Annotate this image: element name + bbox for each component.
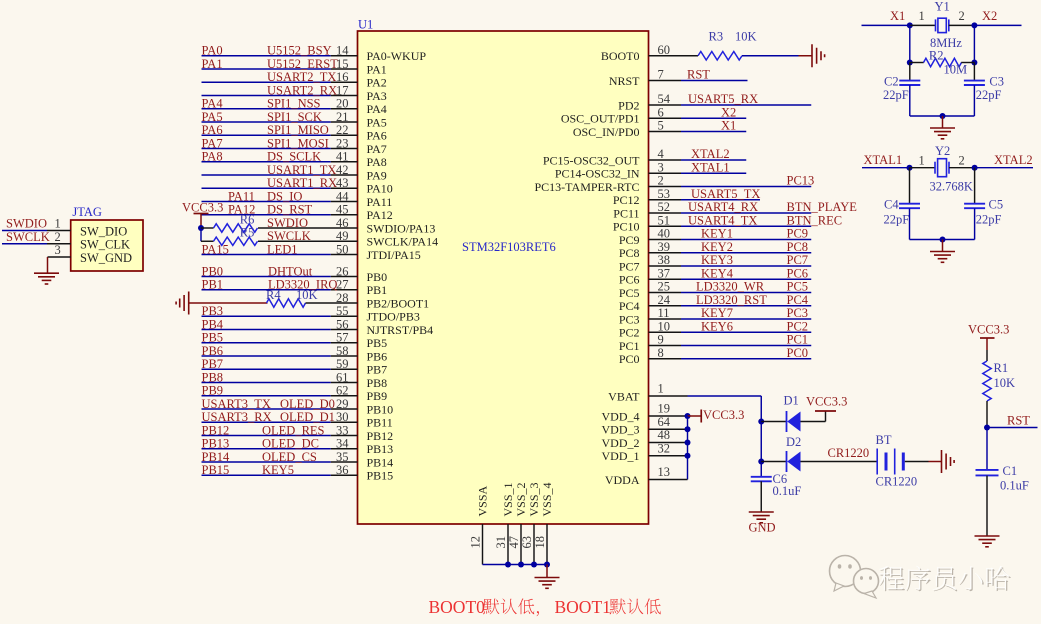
svg-text:27: 27 [336, 278, 349, 292]
svg-text:PC2: PC2 [787, 319, 809, 333]
ground GND [749, 511, 774, 513]
pin 54 wire [649, 104, 682, 106]
svg-text:KEY4: KEY4 [701, 266, 734, 280]
svg-text:PA8: PA8 [202, 150, 223, 164]
svg-text:51: 51 [658, 213, 671, 227]
ground (battery) [941, 450, 943, 473]
right column down [973, 25, 975, 62]
svg-text:PB0: PB0 [367, 270, 388, 284]
svg-text:PB6: PB6 [202, 344, 224, 358]
junction [544, 562, 550, 568]
pin 12 VSSA [482, 524, 484, 565]
svg-text:X1: X1 [890, 9, 905, 23]
pin 26 PB0 wire [202, 276, 331, 278]
svg-text:0.1uF: 0.1uF [1000, 479, 1029, 493]
svg-text:13: 13 [658, 465, 671, 479]
svg-text:USART2_RX: USART2_RX [267, 83, 337, 97]
svg-text:PB9: PB9 [367, 389, 388, 403]
svg-text:14: 14 [336, 44, 349, 58]
svg-text:6: 6 [658, 105, 664, 119]
svg-text:4: 4 [658, 147, 665, 161]
svg-text:U5152_BSY: U5152_BSY [267, 44, 332, 58]
svg-text:VDDA: VDDA [605, 473, 640, 487]
svg-text:57: 57 [336, 331, 349, 345]
svg-text:PB10: PB10 [367, 402, 394, 416]
VBAT vertical rail [760, 396, 762, 476]
svg-text:OLED_D0: OLED_D0 [280, 397, 335, 411]
svg-text:VDD_4: VDD_4 [602, 409, 640, 423]
pin 48 VDD_2 [649, 442, 688, 444]
svg-text:PA15: PA15 [202, 242, 229, 256]
svg-text:Y1: Y1 [935, 0, 950, 14]
svg-text:PA6: PA6 [202, 123, 223, 137]
pin 38 wire [649, 265, 682, 267]
svg-text:PC3: PC3 [787, 306, 809, 320]
svg-text:22pF: 22pF [976, 213, 1002, 227]
svg-text:PC1: PC1 [619, 339, 640, 353]
pin 41 PA8 wire [202, 161, 331, 163]
pin 45 PA12 wire [202, 214, 331, 216]
svg-text:7: 7 [658, 68, 664, 82]
ground (JTAG) [34, 272, 59, 274]
svg-text:31: 31 [494, 536, 508, 549]
svg-text:CR1220: CR1220 [876, 475, 918, 489]
svg-text:PC6: PC6 [619, 273, 640, 287]
svg-text:SWDIO/PA13: SWDIO/PA13 [367, 221, 436, 235]
wire Y1 to X2 [949, 24, 975, 26]
svg-text:1: 1 [55, 217, 61, 231]
pin 10 wire [649, 331, 682, 333]
svg-text:PC8: PC8 [619, 246, 640, 260]
resistor R1 10K [983, 361, 991, 401]
svg-text:VCC3.3: VCC3.3 [182, 201, 223, 215]
svg-text:32.768K: 32.768K [930, 180, 973, 194]
svg-text:PA0-WKUP: PA0-WKUP [367, 49, 427, 63]
svg-text:D1: D1 [784, 394, 799, 408]
svg-text:USART2_TX: USART2_TX [267, 70, 336, 84]
svg-text:JTDO/PB3: JTDO/PB3 [367, 310, 420, 324]
svg-text:RST: RST [1007, 414, 1030, 428]
svg-text:22pF: 22pF [883, 88, 909, 102]
pin 30 PB11 wire [202, 421, 331, 423]
IC U1 STM32F103RET6 [358, 31, 649, 524]
svg-text:10K: 10K [994, 376, 1016, 390]
svg-text:OSC_IN/PD0: OSC_IN/PD0 [573, 125, 640, 139]
pin 34 PB13 wire [202, 448, 331, 450]
svg-text:USART1_TX: USART1_TX [267, 163, 336, 177]
net XTAL2 wire [975, 167, 1033, 169]
power port VCC3.3 (D1) [815, 410, 836, 412]
pin 29 PB10 wire [202, 408, 331, 410]
svg-text:1: 1 [919, 9, 925, 23]
wire to R6 [201, 227, 214, 229]
pin 22 PA6 wire [202, 134, 331, 136]
svg-text:62: 62 [336, 384, 349, 398]
svg-text:R6: R6 [240, 212, 255, 226]
svg-text:OLED_DC: OLED_DC [262, 437, 319, 451]
svg-text:PB5: PB5 [367, 336, 388, 350]
svg-text:PC5: PC5 [787, 280, 809, 294]
svg-text:LD3320_WR: LD3320_WR [696, 280, 765, 294]
svg-text:BTN_REC: BTN_REC [787, 213, 843, 227]
svg-text:LD3320_RST: LD3320_RST [696, 293, 767, 307]
svg-text:PC9: PC9 [787, 227, 809, 241]
svg-text:8: 8 [658, 346, 664, 360]
svg-text:45: 45 [336, 203, 349, 217]
svg-text:PB8: PB8 [202, 370, 224, 384]
svg-text:PA0: PA0 [202, 44, 223, 58]
ground (PB2 pulldown) [188, 292, 190, 315]
svg-text:OLED_D1: OLED_D1 [280, 410, 335, 424]
svg-text:PC12: PC12 [613, 193, 640, 207]
junction [531, 562, 537, 568]
pin 63 VSS_3 [533, 524, 535, 565]
svg-text:VDD_3: VDD_3 [602, 423, 640, 437]
svg-text:24: 24 [658, 293, 671, 307]
svg-text:DS_RST: DS_RST [267, 203, 313, 217]
svg-text:U5152_ERST: U5152_ERST [267, 57, 338, 71]
pin 32 VDD_1 [649, 455, 688, 457]
svg-text:PA7: PA7 [367, 142, 387, 156]
svg-text:PC13-TAMPER-RTC: PC13-TAMPER-RTC [535, 180, 640, 194]
svg-text:PC8: PC8 [787, 240, 809, 254]
svg-text:VDD_1: VDD_1 [602, 449, 640, 463]
svg-text:17: 17 [336, 83, 349, 97]
net SWCLK wire [2, 243, 47, 245]
svg-text:JTAG: JTAG [72, 205, 102, 219]
svg-text:PC9: PC9 [619, 233, 640, 247]
wire C6 to ground [760, 481, 762, 511]
bottom bus Y2 [910, 239, 975, 241]
pin 40 wire [649, 239, 682, 241]
svg-text:KEY6: KEY6 [701, 319, 733, 333]
svg-text:X2: X2 [721, 105, 736, 119]
pin 60 BOOT0 + resistor R3 to ground [649, 55, 699, 57]
node X1 [907, 22, 913, 28]
net XTAL1 wire [862, 167, 910, 169]
svg-text:PC3: PC3 [619, 312, 640, 326]
svg-text:KEY3: KEY3 [701, 253, 733, 267]
node R2 right [971, 60, 977, 66]
svg-text:2: 2 [55, 230, 61, 244]
svg-text:PB2/BOOT1: PB2/BOOT1 [367, 296, 430, 310]
svg-text:10: 10 [658, 319, 671, 333]
svg-text:PB11: PB11 [367, 416, 393, 430]
svg-text:KEY7: KEY7 [701, 306, 733, 320]
svg-text:PC6: PC6 [787, 266, 809, 280]
svg-text:PB8: PB8 [367, 376, 388, 390]
svg-text:VCC3.3: VCC3.3 [968, 323, 1009, 337]
svg-text:33: 33 [336, 423, 349, 437]
svg-text:PB1: PB1 [202, 278, 224, 292]
svg-text:PC13: PC13 [787, 174, 815, 188]
svg-text:38: 38 [658, 253, 671, 267]
svg-text:46: 46 [336, 216, 349, 230]
svg-text:XTAL1: XTAL1 [864, 153, 903, 167]
svg-text:USART4_RX: USART4_RX [688, 200, 758, 214]
svg-text:SPI1_MISO: SPI1_MISO [267, 123, 329, 137]
wire R5 left [201, 240, 214, 242]
svg-text:32: 32 [658, 442, 671, 456]
svg-text:47: 47 [507, 536, 521, 549]
svg-text:54: 54 [658, 92, 671, 106]
svg-text:36: 36 [336, 463, 349, 477]
svg-text:PC7: PC7 [619, 259, 640, 273]
svg-text:41: 41 [336, 150, 349, 164]
svg-text:39: 39 [658, 240, 671, 254]
svg-text:USART3_RX: USART3_RX [202, 410, 272, 424]
svg-text:22: 22 [336, 123, 349, 137]
svg-text:10K: 10K [296, 288, 318, 302]
node X2 [971, 22, 977, 28]
svg-text:PA2: PA2 [367, 76, 387, 90]
svg-text:R2: R2 [929, 49, 944, 63]
svg-text:PB3: PB3 [202, 304, 224, 318]
svg-text:PC4: PC4 [619, 299, 640, 313]
svg-text:19: 19 [658, 402, 671, 416]
svg-text:C5: C5 [989, 198, 1004, 212]
pin 5 wire [649, 131, 682, 133]
pin 3 SW_GND wire [48, 256, 71, 258]
pin 37 wire [649, 278, 682, 280]
svg-text:PA5: PA5 [202, 110, 223, 124]
svg-text:KEY1: KEY1 [701, 227, 733, 241]
svg-text:BT: BT [876, 433, 892, 447]
svg-text:SWCLK: SWCLK [267, 229, 311, 243]
svg-text:2: 2 [959, 154, 965, 168]
svg-text:SPI1_NSS: SPI1_NSS [267, 97, 321, 111]
svg-text:PB12: PB12 [202, 423, 230, 437]
pin 49 SWCLK/PA14 wire [258, 240, 358, 242]
svg-text:R3: R3 [709, 30, 724, 44]
svg-text:XTAL2: XTAL2 [691, 147, 730, 161]
svg-text:PA12: PA12 [367, 208, 393, 222]
pin 33 PB12 wire [202, 435, 331, 437]
ground (Y2) [930, 251, 955, 253]
wire to Y1 [910, 24, 936, 26]
svg-text:35: 35 [336, 450, 349, 464]
ground (R3) [811, 44, 813, 67]
resistor R6 [214, 224, 258, 232]
svg-text:USART5_RX: USART5_RX [688, 92, 758, 106]
svg-text:29: 29 [336, 397, 349, 411]
junction [518, 562, 524, 568]
pin 24 wire [649, 305, 682, 307]
wire battery to ground [905, 461, 929, 463]
svg-text:PC7: PC7 [787, 253, 809, 267]
svg-text:PB0: PB0 [202, 264, 224, 278]
svg-text:VCC3.3: VCC3.3 [806, 395, 847, 409]
net RST wire [987, 427, 1038, 429]
svg-text:10K: 10K [735, 30, 757, 44]
svg-text:5: 5 [658, 119, 664, 133]
svg-text:XTAL2: XTAL2 [994, 153, 1033, 167]
svg-text:PC0: PC0 [619, 352, 640, 366]
svg-text:PA8: PA8 [367, 155, 387, 169]
svg-text:52: 52 [658, 200, 671, 214]
svg-text:SPI1_MOSI: SPI1_MOSI [267, 136, 329, 150]
pin 31 VSS_1 [507, 524, 509, 565]
wire gnd to R4 [189, 302, 268, 304]
svg-text:PB1: PB1 [367, 283, 388, 297]
pin 57 PB5 wire [202, 342, 331, 344]
svg-text:KEY5: KEY5 [262, 463, 294, 477]
svg-text:PA9: PA9 [367, 168, 387, 182]
pin 35 PB14 wire [202, 461, 331, 463]
ground (Y1) [930, 127, 955, 129]
svg-text:21: 21 [336, 110, 349, 124]
svg-text:LED1: LED1 [267, 242, 298, 256]
pin 39 wire [649, 252, 682, 254]
svg-text:CR1220: CR1220 [828, 446, 870, 460]
svg-text:PA11: PA11 [367, 195, 393, 209]
svg-text:61: 61 [336, 370, 349, 384]
svg-text:49: 49 [336, 229, 349, 243]
svg-text:NJTRST/PB4: NJTRST/PB4 [367, 323, 434, 337]
capacitor C2 22pF [909, 63, 911, 81]
svg-text:56: 56 [336, 317, 349, 331]
svg-text:Y2: Y2 [935, 144, 950, 158]
svg-text:44: 44 [336, 189, 349, 203]
VDD rail [687, 416, 689, 480]
svg-text:USART4_TX: USART4_TX [688, 213, 757, 227]
svg-text:PA10: PA10 [367, 182, 393, 196]
svg-text:PA1: PA1 [367, 62, 387, 76]
svg-text:JTDI/PA15: JTDI/PA15 [367, 248, 421, 262]
svg-text:PC0: PC0 [787, 346, 809, 360]
svg-text:R4: R4 [266, 288, 281, 302]
svg-text:PA4: PA4 [367, 102, 387, 116]
svg-text:22pF: 22pF [976, 88, 1002, 102]
svg-text:11: 11 [658, 306, 670, 320]
svg-text:U1: U1 [358, 18, 373, 32]
svg-text:SPI1_SCK: SPI1_SCK [267, 110, 322, 124]
svg-text:C3: C3 [989, 75, 1004, 89]
svg-text:58: 58 [336, 344, 349, 358]
capacitor C6 [751, 476, 772, 478]
wire C1 to ground [986, 476, 988, 536]
svg-text:R5: R5 [240, 226, 255, 240]
svg-text:BTN_PLAYE: BTN_PLAYE [787, 200, 858, 214]
pin 20 PA4 wire [202, 108, 331, 110]
svg-text:NRST: NRST [609, 74, 640, 88]
capacitor C5 22pF [964, 203, 985, 205]
svg-text:3: 3 [658, 160, 664, 174]
svg-text:48: 48 [658, 428, 671, 442]
svg-text:PA6: PA6 [367, 129, 387, 143]
svg-text:37: 37 [658, 266, 671, 280]
pin 8 wire [649, 358, 682, 360]
pin 18 VSS_4 [546, 524, 548, 565]
svg-text:PA5: PA5 [367, 115, 387, 129]
capacitor C3 22pF [973, 63, 975, 81]
svg-text:2: 2 [959, 9, 965, 23]
svg-text:VSS_2: VSS_2 [514, 482, 528, 516]
svg-text:PB5: PB5 [202, 331, 224, 345]
pin 44 PA11 wire [202, 201, 331, 203]
svg-text:SWDIO: SWDIO [6, 217, 47, 231]
svg-text:16: 16 [336, 70, 349, 84]
svg-text:SW_GND: SW_GND [80, 251, 132, 265]
watermark 程序员小哈 [830, 556, 1011, 599]
svg-text:PB9: PB9 [202, 384, 224, 398]
pin 53 wire [649, 199, 682, 201]
svg-text:63: 63 [520, 536, 534, 549]
svg-text:1: 1 [919, 154, 925, 168]
bottom bus Y1 [910, 115, 975, 117]
svg-text:BOOT0: BOOT0 [601, 49, 640, 63]
svg-text:USART3_TX: USART3_TX [202, 397, 271, 411]
pin 47 VSS_2 [520, 524, 522, 565]
svg-text:43: 43 [336, 176, 349, 190]
svg-text:XTAL1: XTAL1 [691, 160, 730, 174]
pin 14 PA0-WKUP wire [202, 55, 331, 57]
pin 61 PB8 wire [202, 382, 331, 384]
node XTAL1 [907, 165, 913, 171]
diode D2 [758, 459, 764, 465]
svg-text:PB7: PB7 [367, 363, 388, 377]
svg-text:PB15: PB15 [367, 469, 394, 483]
svg-text:PB6: PB6 [367, 349, 388, 363]
svg-text:PB13: PB13 [202, 437, 230, 451]
svg-text:PB14: PB14 [367, 455, 394, 469]
svg-text:2: 2 [658, 174, 664, 188]
svg-text:STM32F103RET6: STM32F103RET6 [462, 240, 556, 254]
node R2 left [907, 60, 913, 66]
node gnd Y2 [940, 237, 946, 243]
wire down to C1 [986, 428, 988, 470]
pin 51 wire [649, 225, 682, 227]
resistor R2 10M [910, 62, 924, 64]
pin 52 wire [649, 212, 682, 214]
svg-text:PA4: PA4 [202, 97, 224, 111]
wire Y2 to XTAL2 [949, 167, 975, 169]
svg-text:0.1uF: 0.1uF [773, 484, 802, 498]
svg-text:GND: GND [749, 521, 776, 535]
svg-text:DS_IO: DS_IO [267, 189, 302, 203]
junction [505, 562, 511, 568]
svg-text:PC5: PC5 [619, 286, 640, 300]
resistor R4 [267, 299, 306, 307]
pin 27 PB1 wire [202, 289, 331, 291]
svg-text:12: 12 [468, 536, 482, 549]
pin 21 PA5 wire [202, 121, 331, 123]
pin 43 PA10 wire [202, 187, 331, 189]
svg-text:PB14: PB14 [202, 450, 231, 464]
svg-text:PC1: PC1 [787, 333, 809, 347]
svg-text:OLED_RES: OLED_RES [262, 423, 325, 437]
ground (C1) [975, 535, 1000, 537]
svg-text:SW_CLK: SW_CLK [80, 238, 130, 252]
pin 16 PA2 wire [202, 81, 331, 83]
svg-text:PB13: PB13 [367, 442, 394, 456]
svg-text:SW_DIO: SW_DIO [80, 225, 127, 239]
svg-text:10M: 10M [944, 63, 968, 77]
svg-text:USART5_TX: USART5_TX [691, 187, 760, 201]
svg-text:55: 55 [336, 304, 349, 318]
svg-text:PB4: PB4 [202, 317, 224, 331]
svg-text:53: 53 [658, 187, 671, 201]
svg-text:VSS_4: VSS_4 [540, 482, 554, 516]
svg-text:SWCLK/PA14: SWCLK/PA14 [367, 235, 439, 249]
svg-text:PC11: PC11 [613, 206, 639, 220]
pin 11 wire [649, 318, 682, 320]
svg-text:X2: X2 [982, 9, 997, 23]
svg-text:PB12: PB12 [367, 429, 394, 443]
pin 59 PB7 wire [202, 368, 331, 370]
svg-text:64: 64 [658, 415, 671, 429]
ground (VSS) [535, 577, 560, 579]
